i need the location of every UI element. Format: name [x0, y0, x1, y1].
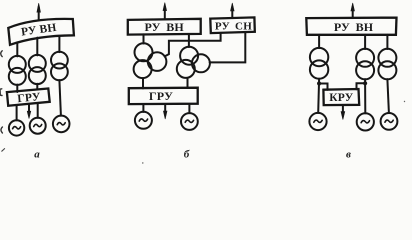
- wire: outgoing line to system, scheme в: [351, 3, 355, 18]
- wire: РУ ВН to transformer T2b: [188, 34, 190, 47]
- wire: T3a to generator G3a: [59, 80, 61, 116]
- switchgear bus РУ ВН, scheme б: [128, 19, 201, 35]
- transformer T2v (two-winding): [356, 49, 374, 80]
- wire: ГРУ to generator G2b: [188, 104, 190, 113]
- wire: РУ ВН to transformer T2a: [36, 38, 38, 56]
- switchgear bus РУ СН, scheme б: [210, 17, 255, 33]
- wire: junction to КРУ (left tap): [319, 84, 327, 90]
- wire: T1b MV winding to РУ СН: [165, 33, 221, 56]
- load arrow from КРУ: [341, 105, 345, 120]
- transformer T2b (three-winding): [177, 47, 210, 78]
- wire: T2v to generator G2v: [364, 79, 366, 113]
- generator G1a: [9, 120, 24, 135]
- wire: ГРУ to generator G1b: [142, 104, 144, 112]
- wire: T1a to ГРУ: [16, 85, 18, 92]
- wire: outgoing line to system, scheme a: [37, 3, 41, 19]
- generator G1v: [309, 113, 326, 130]
- load arrow from ГРУ, scheme a: [27, 104, 31, 118]
- junction node on T2v wire: [363, 81, 367, 85]
- svg-text:б: б: [184, 149, 190, 161]
- wire: РУ ВН to transformer T2v: [364, 35, 366, 49]
- switchgear bus РУ ВН, scheme a: [8, 19, 74, 45]
- transformer T2a (two-winding): [29, 55, 46, 84]
- scan artifacts (left edge), decorative: [0, 51, 405, 164]
- transformer T1v (two-winding): [310, 48, 328, 79]
- svg-text:РУ ВН: РУ ВН: [145, 20, 185, 34]
- wire: T1b to ГРУ: [142, 78, 144, 88]
- transformer T1b (three-winding): [134, 43, 167, 78]
- svg-text:КРУ: КРУ: [329, 92, 353, 104]
- wire: T2b to ГРУ: [187, 78, 189, 88]
- wire: РУ ВН to transformer T1b: [143, 34, 145, 43]
- wire: T3v to generator G3v: [387, 79, 389, 113]
- load arrow from ГРУ, scheme б: [163, 104, 167, 119]
- switchgear bus РУ ВН, scheme в: [306, 18, 396, 35]
- wire: РУ ВН to transformer T1a: [16, 43, 18, 57]
- wire: РУ ВН to transformer T3v: [386, 35, 388, 49]
- svg-text:в: в: [346, 149, 351, 161]
- svg-text:РУ СН: РУ СН: [215, 21, 252, 33]
- generator G1b: [135, 112, 152, 129]
- wire: РУ ВН to transformer T1v: [318, 35, 320, 48]
- wire: junction to КРУ (right tap): [357, 83, 366, 89]
- transformer T3a (two-winding): [51, 52, 68, 81]
- generator G3a: [53, 116, 70, 133]
- wire: РУ ВН to transformer T3a: [58, 36, 60, 52]
- wire: outgoing line to system from РУ СН, scheme б: [231, 3, 235, 18]
- transformer T1a (two-winding): [9, 56, 26, 85]
- svg-text:ГРУ: ГРУ: [149, 89, 173, 103]
- switchgear bus КРУ: [323, 89, 359, 105]
- junction node on T1v wire: [317, 81, 321, 85]
- wire: ГРУ to generator G2a: [37, 104, 39, 118]
- wire: ГРУ to generator G1a: [16, 105, 18, 120]
- generator G2v: [357, 113, 374, 130]
- svg-text:РУ ВН: РУ ВН: [334, 20, 374, 34]
- wire: T2b MV winding to РУ СН: [210, 32, 246, 62]
- wire: outgoing line to system from РУ ВН, scheme б: [163, 3, 167, 19]
- wire: T1v to generator G1v: [317, 79, 320, 113]
- switchgear bus ГРУ, scheme a: [7, 89, 50, 106]
- generator G3v: [381, 113, 398, 130]
- wire: T2a to ГРУ: [36, 84, 38, 90]
- switchgear bus ГРУ, scheme б: [129, 88, 198, 104]
- generator G2b: [181, 113, 198, 130]
- generator G2a: [30, 118, 46, 134]
- transformer T3v (two-winding): [378, 49, 396, 80]
- svg-text:а: а: [34, 149, 40, 161]
